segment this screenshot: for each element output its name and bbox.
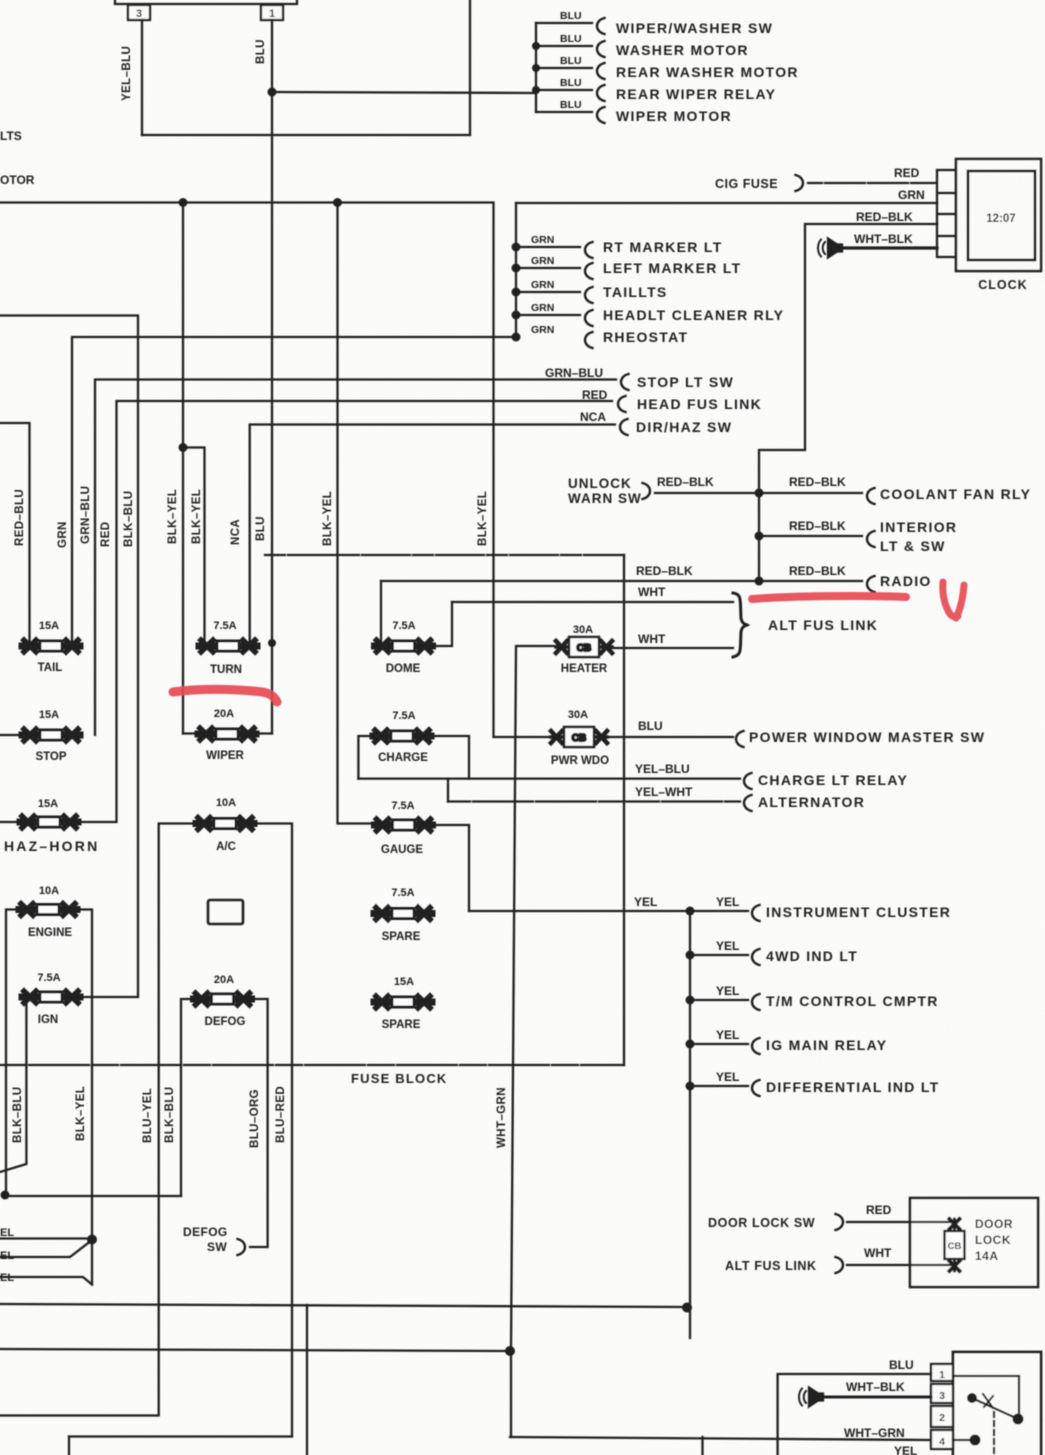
wire RED head fus link	[78, 401, 612, 822]
wire YEL-BLU charge lt relay	[358, 777, 740, 779]
red annotation underline TURN	[173, 689, 277, 702]
wire YEL from gauge to bus	[469, 910, 690, 912]
wire BLK-YEL2 down to gauge fuse	[338, 203, 378, 824]
fuse block inner rectangle	[208, 900, 243, 924]
connector 4wd ind lt	[752, 949, 760, 965]
wire stub rt marker lt	[516, 246, 580, 248]
junction yel bus bottom	[682, 1303, 692, 1313]
wire YEL bus vertical	[689, 911, 691, 1338]
pin 3 box	[128, 5, 150, 20]
wire stub left marker lt	[516, 267, 580, 269]
connector unlock warn sw	[643, 483, 651, 499]
wire defog fuse right lead to defog sw	[249, 999, 268, 1247]
wire branch x702 down	[701, 1437, 703, 1455]
wire stub coolant fan rly	[759, 492, 862, 494]
wire unlock warn sw to red-blk bus	[655, 492, 759, 494]
pin 1 box	[261, 5, 283, 20]
wire pwr wdo right lead BLU	[606, 736, 733, 738]
wire WHT-BLK bottom	[824, 1396, 931, 1399]
wire defog fuse left lead down	[181, 999, 196, 1196]
wire ign fuse left lead down	[0, 997, 26, 1172]
circuit breaker door lock vertical	[945, 1219, 965, 1271]
wire right vertical x470	[469, 0, 471, 135]
wire RED to door lock cb	[847, 1221, 954, 1223]
junction on BLU near turn fuse	[268, 639, 276, 647]
connector wiper motor	[597, 107, 605, 123]
wire stub wiper motor	[536, 111, 592, 113]
junction motor line blk-yel1	[179, 198, 188, 207]
wire GRN-BLU stop lt sw	[95, 380, 616, 736]
wire heater left lead / WHT-GRN vertical	[511, 646, 556, 1437]
wire stub headlt cleaner rly	[516, 314, 580, 316]
circuit breaker PWR WDO 30A	[551, 727, 607, 747]
connector rear wiper relay	[597, 85, 605, 101]
connector t/m control cmptr	[752, 994, 760, 1010]
connector differential ind lt	[752, 1080, 760, 1096]
wire inside box pin1 to switch	[953, 1376, 1019, 1419]
fuse CHARGE 7.5A	[373, 730, 431, 742]
junction pin3 inside	[967, 1393, 977, 1403]
junction pin4 inside	[970, 1435, 981, 1446]
connector interior lt sw	[867, 531, 875, 547]
clock pin strip	[937, 170, 958, 257]
wire horizontal y1305	[0, 1304, 687, 1307]
wire motor line left to fuse block vertical	[0, 203, 552, 738]
bottom connector box	[953, 1352, 1041, 1455]
wire YEL-BLU from pin 3 down	[141, 20, 143, 135]
speaker chime icon	[818, 239, 842, 258]
junction yel bus 2	[686, 951, 695, 960]
pin box 3 bottom	[931, 1384, 953, 1403]
fuse DOME 7.5A	[375, 640, 433, 652]
junction BLU bus washer motor	[532, 42, 540, 50]
connector alt fus link bottom	[836, 1257, 844, 1273]
wire horizontal y135	[142, 134, 470, 136]
wire WHT-BLK chime to clock	[843, 246, 937, 249]
wire stub radio	[759, 580, 862, 582]
wire stub taillts	[516, 291, 580, 293]
wire stub rear wiper relay	[536, 89, 592, 91]
junction yel bus 3	[686, 996, 695, 1005]
speaker chime icon bottom	[799, 1388, 823, 1407]
fuse TURN 7.5A	[199, 640, 257, 652]
junction yel bus 4	[686, 1040, 695, 1049]
connector cig fuse	[796, 175, 804, 191]
wire GRN clock feed	[516, 202, 937, 204]
wire dome right lead up to wht line	[433, 602, 452, 646]
door lock box	[910, 1198, 1038, 1287]
wire engine fuse right lead down	[74, 910, 92, 1285]
junction BLU bus rear washer motor	[532, 64, 540, 72]
wire stub 4wd ind lt	[690, 954, 748, 956]
junction switch end	[1013, 1414, 1024, 1425]
connector wiper/washer sw	[597, 18, 605, 34]
junction grn bus 3	[512, 288, 521, 297]
wire bottom horizontal left segment	[69, 1435, 292, 1437]
junction wht-grn y1351	[505, 1346, 515, 1356]
junction grn bus 4	[512, 311, 521, 320]
wire vertical x624	[623, 555, 625, 1065]
connector rheostat	[585, 332, 593, 348]
wire stub instrument cluster	[690, 910, 748, 912]
wire RED cig fuse to clock	[808, 182, 937, 184]
pin box 4 bottom	[931, 1430, 953, 1449]
wire stop fuse left lead	[0, 734, 28, 736]
wire dome left lead up to red-blk line	[380, 581, 382, 646]
fuse GAUGE 7.5A	[375, 819, 433, 831]
connector left marker lt	[585, 263, 593, 279]
junction red-blk interior	[755, 532, 764, 541]
wire stub t/m control cmptr	[690, 999, 748, 1001]
connector defog sw	[238, 1239, 246, 1255]
connector rear washer motor	[597, 63, 605, 79]
wire stub washer motor	[536, 45, 592, 47]
fuse WIPER 20A	[198, 728, 256, 740]
clock U1 outer box	[956, 159, 1041, 271]
connector washer motor	[597, 41, 605, 57]
junction red-blk coolant	[755, 489, 764, 498]
junction yel bus 1	[686, 907, 695, 916]
wire dashed fuse block top	[265, 554, 624, 556]
junction grn bus 5	[512, 333, 521, 342]
wire engine fuse left lead down	[6, 910, 22, 1196]
brace alt fus link	[733, 593, 747, 657]
wire bottom horizontal right segment to pin 4	[510, 1437, 931, 1440]
wire BLU from pin 1 down to wiper fuse	[271, 20, 273, 734]
connector instrument cluster	[752, 905, 760, 921]
wire BLU bus for wiper loads	[535, 23, 537, 112]
fuse STOP 15A	[22, 729, 80, 741]
fuse ENGINE 10A	[19, 904, 77, 916]
connector charge lt relay	[744, 773, 752, 789]
wire horizontal y1196	[4, 1195, 181, 1197]
wire BLK-YEL1 down to wiper fuse	[182, 203, 184, 734]
circuit breaker HEATER 30A	[556, 637, 612, 657]
connector head fus link	[618, 396, 626, 412]
wire stub differential ind lt	[690, 1085, 748, 1087]
wire GRN bus	[515, 203, 517, 337]
connector power window master sw	[736, 731, 744, 747]
wire left stub yel3	[0, 1277, 92, 1285]
wire left stub yel1	[0, 1237, 92, 1239]
wire heater right lead WHT lower	[612, 647, 733, 649]
wire haz-horn fuse left lead	[0, 821, 26, 823]
red annotation line under RADIO wht	[752, 596, 906, 599]
wire vertical x307	[306, 1305, 308, 1455]
fuse IGN 7.5A	[22, 991, 80, 1003]
connector ig main relay	[752, 1038, 760, 1054]
wire charge right lead down	[432, 736, 469, 779]
wire BLU bottom	[778, 1374, 931, 1455]
pin box 1 bottom	[931, 1364, 953, 1381]
wire horizontal y1349	[0, 1349, 510, 1351]
junction blk-yel1 branch	[179, 443, 188, 452]
wire charge left lead down	[358, 736, 372, 779]
connector coolant fan rly	[867, 488, 875, 504]
wire stub rear washer motor	[536, 67, 592, 69]
wire RED-BLK radio line	[381, 580, 759, 582]
fuse DEFOG 20A	[194, 993, 252, 1005]
wire stub interior lt sw	[759, 535, 862, 537]
junction yel bus 5	[686, 1082, 695, 1091]
wire bottom left corner down	[68, 1437, 70, 1455]
switch blade diagonal	[972, 1398, 1018, 1419]
wire dashed fuse block bottom	[0, 1064, 624, 1066]
clock display box	[968, 171, 1035, 260]
wire a/c fuse right lead and BLU-RED vertical	[254, 824, 292, 1437]
fuse A/C 10A	[196, 818, 254, 830]
wire RED-BLU to tail fuse	[0, 423, 30, 646]
connector radio	[867, 576, 875, 592]
connector door lock sw	[836, 1214, 844, 1230]
wire WHT upper to alt fus link	[452, 601, 733, 603]
connector headlt cleaner rly	[585, 310, 593, 326]
switch cross mark	[983, 1394, 993, 1408]
junction BLU bus rear wiper relay	[532, 86, 540, 94]
clock circuit group	[516, 159, 1041, 581]
connector dir/haz sw	[620, 419, 628, 435]
connector rt marker lt	[585, 242, 593, 258]
wire NCA dir/haz sw	[250, 425, 615, 647]
wire jog to alternator line	[447, 779, 449, 802]
fuse SPARE 7.5A	[374, 908, 432, 920]
wire WHT to door lock cb	[847, 1264, 954, 1266]
junction red-blk radio	[755, 577, 764, 586]
red annotation scribble	[943, 582, 964, 618]
wire wiper fuse line	[183, 732, 272, 734]
wire gauge right lead down to yel line	[432, 825, 469, 911]
wire stub rheostat going to tail fuse	[72, 337, 516, 646]
wire stub ig main relay	[690, 1043, 748, 1045]
junction engine-left bottom	[1, 1191, 10, 1200]
junction grn bus 2	[512, 264, 521, 273]
junction motor line blk-yel2	[333, 198, 342, 207]
wire a/c fuse left lead and BLU-YEL vertical	[0, 824, 197, 1416]
wire BLK-BLU to ign fuse	[0, 316, 138, 998]
wire RED-BLK from clock	[759, 224, 937, 581]
wire branch to turn fuse	[183, 448, 205, 647]
connector box top (partial)	[115, 0, 297, 4]
junction left stubs	[87, 1235, 97, 1245]
wire YEL-WHT alternator	[448, 800, 740, 802]
dashed divider inside box	[993, 1412, 995, 1455]
junction grn bus 1	[512, 243, 521, 252]
wire BLU branch to wiper bus	[272, 92, 536, 93]
wire stub wiper/washer sw	[536, 22, 592, 24]
connector alternator	[744, 795, 752, 811]
junction pin1 branch	[268, 88, 277, 97]
fuse TAIL 15A	[22, 640, 80, 652]
pin box 2 bottom	[931, 1406, 953, 1427]
fuse HAZ-HORN 15A	[20, 816, 78, 828]
connector taillts	[585, 287, 593, 303]
wire pin4 inside	[953, 1439, 975, 1441]
wire left stub yel2 diagonal	[0, 1240, 92, 1257]
connector stop lt sw	[621, 374, 629, 390]
fuse SPARE 15A	[374, 996, 432, 1008]
